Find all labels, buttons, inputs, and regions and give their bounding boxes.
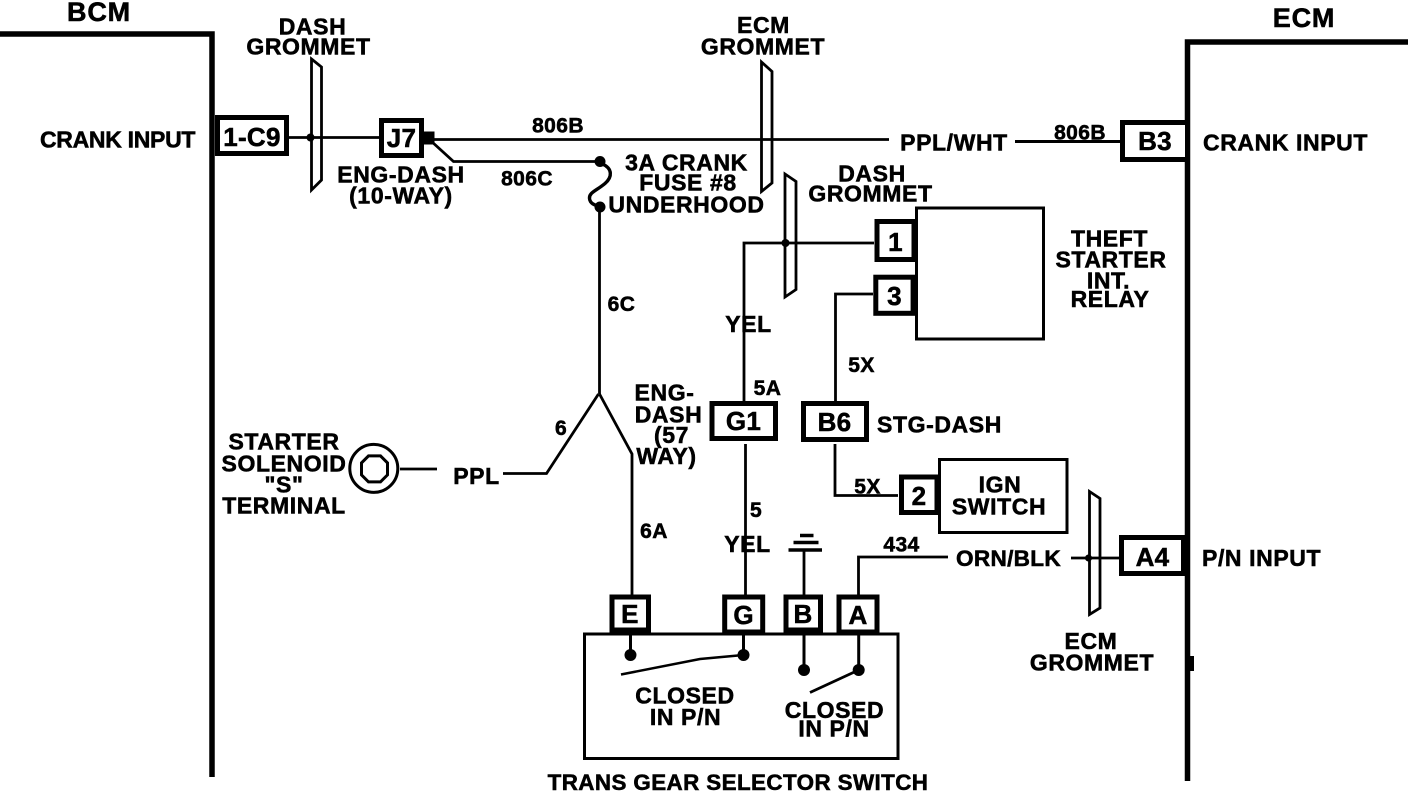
- svg-text:5A: 5A: [754, 377, 782, 400]
- connector J7: [382, 121, 422, 156]
- svg-text:806B: 806B: [532, 115, 584, 138]
- node B contact dot: [798, 664, 810, 676]
- svg-text:6: 6: [555, 417, 567, 440]
- node grommet crossing dot: [1085, 555, 1092, 562]
- grommet ECM GROMMET (right): [1090, 492, 1101, 615]
- wire 5 YEL (G1 to G): [744, 444, 747, 597]
- node E contact dot: [625, 649, 637, 661]
- svg-text:PPL/WHT: PPL/WHT: [900, 130, 1008, 156]
- switch arm E-G closed in P/N: [621, 655, 744, 675]
- svg-text:A4: A4: [1136, 542, 1170, 572]
- solenoid terminal symbol: [350, 444, 398, 492]
- connector pin 3 (relay): [876, 277, 913, 313]
- svg-text:PPL: PPL: [453, 463, 500, 489]
- svg-text:ORN/BLK: ORN/BLK: [956, 546, 1061, 571]
- svg-text:3: 3: [887, 281, 902, 311]
- svg-text:GROMMET: GROMMET: [701, 34, 825, 60]
- svg-text:A: A: [848, 600, 867, 630]
- svg-text:ECM: ECM: [1273, 3, 1335, 33]
- wire stub E contact: [629, 634, 632, 652]
- svg-text:CRANK INPUT: CRANK INPUT: [40, 127, 195, 153]
- svg-text:YEL: YEL: [724, 531, 771, 557]
- svg-text:5X: 5X: [854, 476, 881, 499]
- svg-text:G: G: [733, 600, 754, 630]
- wire 6 (left branch to PPL): [503, 394, 599, 474]
- module ECM outline: [1188, 42, 1408, 781]
- svg-text:1: 1: [888, 227, 903, 257]
- svg-text:IN P/N: IN P/N: [798, 716, 869, 742]
- connector E: [612, 597, 649, 630]
- svg-text:2: 2: [912, 481, 927, 511]
- svg-text:CRANK INPUT: CRANK INPUT: [1203, 130, 1368, 156]
- wire 806B (J7 to PPL/WHT): [434, 138, 889, 141]
- wire 434 (A to ORN/BLK): [859, 557, 949, 597]
- svg-text:SWITCH: SWITCH: [952, 494, 1046, 520]
- node grommet crossing dot: [782, 239, 790, 247]
- switch arm B-A closed in P/N: [810, 670, 859, 693]
- ign switch box: [940, 460, 1068, 533]
- svg-text:806B: 806B: [1054, 122, 1106, 145]
- wire 5X (B6 to ign switch pin 2): [835, 444, 898, 496]
- svg-text:WAY): WAY): [636, 443, 696, 469]
- module BCM outline: [0, 34, 212, 777]
- node G contact dot: [738, 649, 750, 661]
- connector B6: [804, 404, 867, 440]
- wire stub G contact: [742, 634, 745, 652]
- wire stub A contact: [857, 634, 860, 667]
- connector G1: [712, 404, 776, 439]
- svg-text:806C: 806C: [501, 168, 553, 191]
- svg-text:UNDERHOOD: UNDERHOOD: [608, 192, 764, 218]
- svg-text:GROMMET: GROMMET: [1030, 650, 1154, 676]
- svg-text:6C: 6C: [608, 293, 636, 316]
- connector 2 (ign switch): [902, 477, 938, 513]
- node junction tab at J7: [424, 132, 435, 145]
- connector A4: [1122, 538, 1184, 574]
- svg-text:B: B: [793, 599, 812, 629]
- svg-text:TRANS GEAR SELECTOR SWITCH: TRANS GEAR SELECTOR SWITCH: [548, 770, 929, 792]
- svg-text:5X: 5X: [848, 354, 875, 377]
- relay box THEFT STARTER INT. RELAY: [917, 208, 1044, 339]
- svg-text:RELAY: RELAY: [1071, 286, 1150, 312]
- svg-text:IN P/N: IN P/N: [650, 704, 721, 730]
- svg-text:B6: B6: [818, 407, 852, 437]
- node grommet crossing dot: [307, 134, 315, 142]
- svg-text:E: E: [621, 599, 639, 629]
- svg-text:5: 5: [750, 499, 762, 522]
- wire 5A YEL (pin1 to G1): [744, 243, 874, 401]
- trans gear selector switch box: [585, 634, 899, 759]
- svg-text:434: 434: [883, 534, 919, 557]
- wire 1-C9 to J7: [289, 136, 379, 139]
- svg-text:J7: J7: [387, 123, 417, 153]
- svg-text:GROMMET: GROMMET: [808, 181, 932, 207]
- wire ORN/BLK to A4: [1071, 557, 1122, 560]
- connector 1-C9: [218, 118, 287, 154]
- grommet DASH GROMMET (left): [312, 59, 322, 190]
- ground: [789, 536, 823, 551]
- svg-text:B3: B3: [1138, 126, 1172, 156]
- svg-text:(10-WAY): (10-WAY): [349, 183, 453, 209]
- svg-text:TERMINAL: TERMINAL: [222, 493, 346, 519]
- node tab on ECM line below A4: [1188, 656, 1195, 671]
- connector pin 1 (relay): [877, 222, 914, 260]
- fuse 3A CRANK FUSE #8 UNDERHOOD: [589, 156, 610, 213]
- connector B3: [1123, 123, 1188, 160]
- wire 6A (right branch to E): [600, 394, 633, 597]
- grommet ECM GROMMET (top): [762, 62, 773, 192]
- svg-text:BCM: BCM: [67, 0, 131, 27]
- node A contact dot: [853, 664, 865, 676]
- wire PPL to solenoid: [400, 468, 437, 471]
- connector B: [786, 597, 821, 630]
- svg-text:STG-DASH: STG-DASH: [877, 412, 1002, 438]
- svg-text:6A: 6A: [640, 520, 668, 543]
- wire 6C: [598, 211, 601, 394]
- wire 5X (pin3 to B6): [836, 294, 874, 401]
- wire 806B (PPL/WHT to B3): [1015, 140, 1122, 143]
- svg-text:1-C9: 1-C9: [223, 122, 281, 152]
- svg-text:YEL: YEL: [725, 311, 772, 337]
- grommet DASH GROMMET (near relay): [785, 174, 796, 297]
- svg-text:GROMMET: GROMMET: [246, 34, 370, 60]
- svg-text:G1: G1: [726, 406, 761, 436]
- connector A: [839, 597, 877, 632]
- wire ground to B: [803, 552, 806, 598]
- svg-text:P/N INPUT: P/N INPUT: [1202, 545, 1321, 571]
- connector G: [725, 597, 763, 632]
- wire stub B contact: [803, 634, 806, 667]
- wire 806C: [431, 141, 596, 162]
